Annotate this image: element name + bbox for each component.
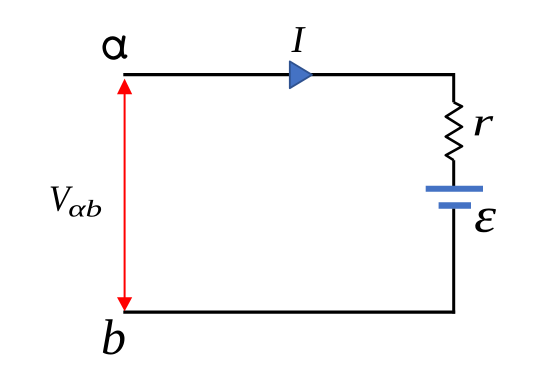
wire bottom horizontal b-to-corner bbox=[123, 311, 455, 314]
current arrow I (blue triangle) bbox=[290, 61, 312, 88]
node label b bbox=[103, 319, 125, 354]
label Vab subscript bbox=[69, 205, 86, 217]
emf label epsilon bbox=[475, 209, 496, 233]
node label a bbox=[102, 36, 125, 59]
resistor r (zigzag) bbox=[446, 102, 462, 160]
current label I bbox=[291, 27, 305, 52]
label Vab bbox=[51, 186, 73, 211]
wire battery to bottom corner bbox=[452, 209, 455, 314]
Vab measurement arrow (red, double-headed) bbox=[117, 79, 132, 312]
battery long plate (+) bbox=[426, 186, 483, 192]
wire top horizontal a-to-corner bbox=[123, 73, 454, 76]
resistor label r bbox=[475, 116, 494, 135]
battery short plate (-) bbox=[439, 202, 471, 209]
wire resistor to battery bbox=[452, 160, 455, 186]
wire right vertical top (corner to resistor) bbox=[452, 73, 455, 102]
